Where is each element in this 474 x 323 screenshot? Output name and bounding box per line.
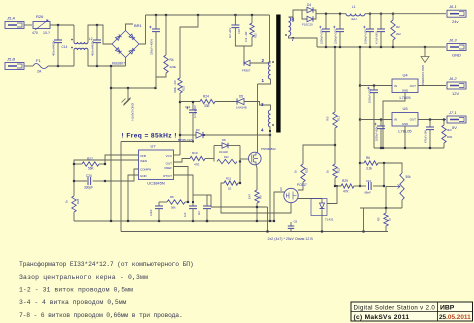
wire	[93, 180, 105, 182]
resistor R29	[341, 179, 354, 194]
connector J6.1	[447, 4, 466, 24]
ic U7 UC3845	[139, 144, 174, 186]
svg-text:4n7+1kV: 4n7+1kV	[228, 27, 232, 38]
wire secondary gnd rail	[121, 231, 388, 233]
capacitor C18	[228, 25, 241, 38]
wire gnd u5 rail	[374, 147, 444, 149]
junction	[362, 230, 364, 232]
junction	[179, 134, 181, 136]
note transformer line4	[19, 299, 127, 306]
wire	[250, 62, 271, 64]
svg-text:C20: C20	[86, 174, 92, 178]
resistor R5	[377, 208, 392, 226]
svg-text:470: 470	[32, 31, 38, 35]
junction	[429, 118, 431, 120]
shunt regulator U2 TL431	[311, 199, 334, 222]
junction	[104, 180, 106, 182]
svg-text:D8: D8	[222, 138, 226, 142]
wire	[205, 158, 214, 160]
svg-text:4uH: 4uH	[351, 17, 357, 21]
junction	[325, 46, 327, 48]
junction	[334, 46, 336, 48]
wire	[267, 207, 269, 232]
title date	[439, 314, 471, 321]
junction	[380, 46, 382, 48]
capacitor C22	[183, 199, 197, 221]
wire sense staircase	[221, 183, 291, 213]
connector J6.2	[447, 76, 466, 96]
junction	[104, 163, 106, 165]
wire	[258, 79, 271, 84]
svg-text:C19: C19	[185, 105, 191, 109]
junction	[359, 46, 361, 48]
diode D5	[236, 95, 247, 110]
wire	[73, 25, 75, 42]
wire opto feed	[303, 145, 335, 164]
svg-text:2200uF+35V: 2200uF+35V	[334, 29, 338, 44]
wire	[155, 15, 157, 29]
svg-text:OUT: OUT	[410, 118, 417, 122]
label winding note	[268, 237, 314, 241]
note transformer line2	[19, 274, 148, 281]
title block frame	[351, 302, 473, 321]
svg-text:ISEN: ISEN	[140, 159, 147, 163]
wire	[207, 195, 211, 207]
svg-text:R25: R25	[305, 167, 309, 173]
wire pin VFB	[105, 155, 139, 164]
junction	[206, 220, 208, 222]
junction	[234, 14, 236, 16]
junction	[380, 118, 382, 120]
svg-text:GND: GND	[402, 89, 408, 93]
svg-text:4n7: 4n7	[197, 210, 201, 215]
junction	[96, 65, 98, 67]
svg-text:56k: 56k	[171, 206, 176, 210]
wire	[96, 25, 98, 40]
wire	[418, 119, 446, 121]
svg-text:R23: R23	[182, 85, 186, 91]
wire	[96, 43, 98, 66]
svg-text:J5.A: J5.A	[6, 16, 15, 21]
resistor R9	[248, 190, 263, 203]
svg-text:2200uF+35V: 2200uF+35V	[320, 29, 324, 44]
junction	[239, 160, 241, 162]
junction	[73, 163, 75, 165]
wire	[298, 182, 303, 190]
svg-text:4.7uF+50V: 4.7uF+50V	[375, 31, 379, 44]
wire opto out a	[274, 192, 284, 221]
svg-text:400mA400V: 400mA400V	[52, 40, 56, 56]
svg-text:GND EARTH: GND EARTH	[131, 103, 135, 121]
capacitor C21	[149, 202, 163, 221]
wire	[298, 198, 322, 200]
svg-text:R21: R21	[226, 177, 232, 181]
junction	[127, 87, 129, 89]
junction	[239, 182, 241, 184]
wire	[73, 50, 75, 66]
svg-text:L1: L1	[352, 5, 356, 9]
wire	[180, 15, 198, 78]
svg-text:50k: 50k	[406, 175, 412, 179]
note transformer line3	[19, 287, 133, 294]
svg-text:R6: R6	[366, 156, 370, 160]
svg-text:1-2 - 31 виток проводом 0,5мм: 1-2 - 31 виток проводом 0,5мм	[19, 287, 133, 294]
svg-text:47K: 47K	[343, 190, 350, 194]
inductor L1	[346, 5, 365, 21]
wire pin RTCT	[174, 175, 194, 199]
svg-text:R30: R30	[447, 135, 453, 139]
svg-text:R27: R27	[87, 157, 93, 161]
svg-text:R9: R9	[259, 195, 263, 199]
svg-text:7-8 - 6 витков проводом 0,66мм: 7-8 - 6 витков проводом 0,66мм в три про…	[19, 312, 183, 319]
transformer secondary winding 7-8	[285, 17, 294, 43]
wire pin VCC	[174, 154, 181, 156]
junction	[392, 46, 394, 48]
wire	[88, 50, 126, 66]
resistor R19	[190, 151, 205, 167]
junction	[273, 220, 275, 222]
junction	[266, 230, 268, 232]
svg-text:R2: R2	[396, 25, 400, 29]
wire pin GND	[128, 175, 139, 221]
wire	[378, 163, 402, 173]
svg-text:8: 8	[292, 18, 295, 24]
svg-text:Зазор центрального керна - 0,3: Зазор центрального керна - 0,3мм	[19, 274, 148, 281]
svg-text:U5: U5	[402, 106, 408, 111]
junction	[380, 147, 382, 149]
wire sense rail	[334, 47, 336, 112]
svg-text:D4: D4	[307, 3, 311, 7]
junction	[155, 14, 157, 16]
transformer core	[276, 15, 280, 133]
svg-text:R8: R8	[170, 195, 174, 199]
junction	[154, 87, 156, 89]
wire fb loop	[211, 206, 268, 208]
junction	[127, 220, 129, 222]
wire	[192, 113, 194, 142]
svg-text:U7: U7	[150, 144, 156, 149]
varistor R26	[32, 14, 50, 35]
resistor R24	[200, 95, 215, 109]
svg-text:GND: GND	[140, 174, 148, 178]
capacitor C3	[363, 14, 374, 47]
junction	[336, 185, 338, 187]
svg-text:J7.1: J7.1	[448, 110, 457, 115]
capacitor C20	[84, 174, 93, 190]
svg-text:GND СИЛОВАЯ: GND СИЛОВАЯ	[421, 65, 425, 86]
junction	[251, 14, 253, 16]
svg-text:R22: R22	[337, 167, 341, 173]
capacitor C14	[52, 40, 68, 56]
wire drain	[257, 84, 259, 152]
wire	[335, 178, 341, 186]
svg-text:220k: 220k	[170, 65, 177, 69]
svg-text:2x2 (4x7) * 25кV Осмм 12 В: 2x2 (4x7) * 25кV Осмм 12 В	[268, 237, 314, 241]
junction	[359, 84, 361, 86]
wire	[240, 158, 249, 160]
wire	[73, 181, 75, 196]
wire	[73, 212, 75, 221]
wire	[159, 201, 167, 203]
resistor R28	[65, 196, 81, 212]
svg-text:VFB: VFB	[140, 154, 146, 158]
wire	[74, 163, 82, 165]
junction	[269, 130, 271, 132]
junction	[73, 180, 75, 182]
wire	[334, 128, 336, 164]
wire	[234, 15, 236, 25]
svg-text:1000uF+35V: 1000uF+35V	[364, 29, 368, 44]
svg-text:4.7uF+50V: 4.7uF+50V	[193, 105, 197, 118]
wire	[165, 15, 167, 55]
svg-text:68nF: 68nF	[365, 191, 372, 195]
svg-text:D5: D5	[239, 95, 243, 99]
junction	[359, 118, 361, 120]
svg-text:2A: 2A	[37, 70, 42, 74]
connector J7.1	[447, 110, 466, 130]
junction	[383, 185, 385, 187]
wire primary ground rail	[74, 220, 274, 222]
wire	[99, 163, 105, 165]
resistor R21	[224, 177, 238, 191]
wire pin OUT	[174, 159, 191, 163]
svg-text:C18: C18	[237, 29, 241, 34]
resistor R27	[82, 157, 99, 171]
capacitor C5	[367, 86, 378, 149]
junction	[392, 13, 394, 15]
regulator U4	[392, 73, 418, 101]
junction	[256, 206, 258, 208]
svg-text:Digital Solder Station v 2.0: Digital Solder Station v 2.0	[354, 304, 436, 311]
svg-text:3k3: 3k3	[447, 128, 452, 132]
connector J5.A	[5, 16, 24, 29]
svg-text:RT/CT: RT/CT	[163, 174, 172, 178]
junction	[192, 101, 194, 103]
title author	[354, 314, 410, 321]
svg-text:25.05.2011: 25.05.2011	[439, 314, 471, 321]
svg-text:1N4148: 1N4148	[236, 106, 247, 110]
wire pin COMP	[105, 169, 139, 181]
wire	[383, 93, 405, 149]
wire	[88, 25, 112, 44]
wire signal gnd vertical	[120, 142, 122, 232]
wire	[251, 15, 253, 23]
junction	[369, 13, 371, 15]
svg-text:R28: R28	[76, 198, 80, 204]
svg-text:3-4 - 4 витка проводом 0,5мм: 3-4 - 4 витка проводом 0,5мм	[19, 299, 127, 306]
capacitor C8	[288, 220, 298, 232]
svg-text:VREF: VREF	[164, 166, 172, 170]
regulator U5	[392, 106, 418, 134]
svg-text:3.3nF: 3.3nF	[149, 209, 153, 216]
junction	[385, 207, 387, 209]
svg-text:U4: U4	[402, 73, 408, 78]
wire	[215, 101, 237, 103]
wire	[126, 24, 134, 31]
ground earth	[122, 88, 135, 121]
svg-text:R4: R4	[170, 58, 174, 62]
title text	[354, 304, 436, 311]
junction	[334, 185, 336, 187]
bridge rectifier BR1	[112, 23, 143, 66]
note transformer line5	[19, 312, 183, 319]
junction	[110, 220, 112, 222]
svg-text:R5: R5	[377, 217, 381, 221]
svg-text:3.3k: 3.3k	[366, 167, 372, 171]
junction	[359, 162, 361, 164]
junction	[197, 14, 199, 16]
optocoupler U3 PC817	[279, 183, 307, 203]
junction	[203, 134, 205, 136]
resistor R6	[364, 156, 378, 171]
svg-text:33E: 33E	[204, 104, 210, 108]
wire	[251, 37, 253, 46]
wire	[386, 186, 396, 188]
wire	[179, 93, 181, 155]
svg-text:1000uF+16V: 1000uF+16V	[369, 88, 372, 103]
capacitor C7	[425, 120, 435, 149]
svg-text:1E: 1E	[228, 187, 232, 191]
junction	[179, 101, 181, 103]
svg-text:2k2: 2k2	[396, 32, 401, 36]
junction	[383, 162, 385, 164]
wire	[302, 10, 307, 19]
wire clamp	[239, 162, 241, 184]
wire	[360, 119, 392, 121]
wire	[235, 28, 252, 46]
wire	[289, 36, 318, 47]
svg-text:PN50R802: PN50R802	[261, 147, 276, 151]
wire	[155, 32, 157, 88]
svg-text:J6.3: J6.3	[448, 38, 457, 43]
svg-text:GND: GND	[452, 53, 461, 58]
wire	[238, 182, 240, 184]
resistor R23	[173, 78, 186, 93]
wire output rail b	[365, 13, 446, 15]
junction	[321, 230, 323, 232]
junction	[165, 14, 167, 16]
junction	[334, 144, 336, 146]
wire dc minus rail	[110, 66, 112, 221]
svg-text:C8: C8	[294, 220, 298, 224]
svg-text:47E: 47E	[194, 163, 199, 167]
wire	[385, 187, 387, 209]
wire gnd rail pot	[360, 207, 402, 209]
wire feed rail	[359, 47, 361, 186]
capacitor C16	[149, 26, 160, 55]
junction	[382, 147, 384, 149]
potentiometer R7	[396, 173, 412, 200]
resistor R15	[244, 23, 258, 42]
svg-text:24v: 24v	[452, 19, 458, 24]
svg-text:330k - 2W: 330k - 2W	[173, 80, 177, 93]
wire	[48, 65, 74, 67]
capacitor C19	[185, 105, 197, 118]
resistor R2	[391, 14, 401, 47]
capacitor C1	[319, 14, 330, 47]
wire pin4 down	[269, 127, 271, 221]
wire	[383, 163, 385, 186]
wire	[418, 85, 446, 87]
wire	[243, 46, 245, 63]
resistor R8	[167, 195, 185, 210]
wire pin ISEN	[74, 160, 139, 164]
wire	[354, 185, 360, 187]
transformer aux winding 3-4	[261, 102, 274, 133]
wire	[213, 146, 215, 162]
svg-text:5V: 5V	[452, 125, 457, 130]
mosfet Q1	[249, 147, 277, 165]
connector J5.B	[5, 57, 24, 70]
junction	[110, 87, 112, 89]
wire	[24, 24, 32, 26]
junction	[424, 46, 426, 48]
junction	[57, 65, 59, 67]
svg-text:1N4148: 1N4148	[219, 151, 228, 154]
svg-text:J6.1: J6.1	[448, 4, 457, 9]
svg-text:330uF+450V: 330uF+450V	[150, 39, 154, 55]
transformer primary winding 1-2	[262, 58, 274, 83]
wire	[385, 226, 387, 232]
wire	[404, 126, 406, 148]
junction	[369, 46, 371, 48]
label freq	[122, 133, 177, 140]
wire	[57, 43, 59, 66]
capacitor C15	[91, 40, 102, 56]
svg-text:BR1: BR1	[134, 23, 143, 28]
svg-text:400mA400V: 400mA400V	[91, 40, 95, 56]
svg-text:OUT: OUT	[166, 162, 173, 166]
svg-text:1nF: 1nF	[183, 212, 187, 217]
capacitor C6	[374, 120, 385, 149]
resistor R22	[326, 164, 341, 178]
svg-text:FR307: FR307	[242, 69, 251, 73]
junction	[359, 185, 361, 187]
wire	[363, 208, 365, 232]
junction	[158, 220, 160, 222]
svg-text:GND: GND	[402, 122, 408, 126]
wire source	[256, 165, 257, 190]
wire	[270, 15, 271, 62]
svg-text:R12: R12	[337, 115, 341, 121]
resistor R30	[442, 120, 453, 149]
wire	[57, 25, 59, 40]
svg-text:(c) MakSVs 2011: (c) MakSVs 2011	[354, 314, 410, 321]
diode D2	[242, 60, 251, 72]
junction	[57, 24, 59, 26]
svg-text:10-?: 10-?	[43, 31, 50, 35]
svg-text:R26: R26	[36, 14, 44, 19]
inductor L2 winding A	[71, 37, 92, 48]
wire	[24, 65, 33, 67]
wire	[360, 85, 392, 87]
svg-text:IN: IN	[394, 118, 397, 122]
wire	[139, 15, 146, 44]
wire	[360, 162, 364, 164]
svg-text:470uF+16V: 470uF+16V	[425, 130, 428, 143]
zener D3	[178, 128, 270, 142]
junction	[373, 84, 375, 86]
fuse F1	[33, 58, 48, 74]
svg-text:COMPN: COMPN	[140, 168, 151, 172]
junction	[256, 220, 258, 222]
svg-text:R15: R15	[254, 33, 258, 38]
wire ground rail secondary	[317, 46, 446, 48]
wire ref	[327, 186, 337, 204]
svg-text:1000uF+16V: 1000uF+16V	[376, 126, 379, 141]
junction	[192, 220, 194, 222]
wire	[125, 58, 127, 67]
